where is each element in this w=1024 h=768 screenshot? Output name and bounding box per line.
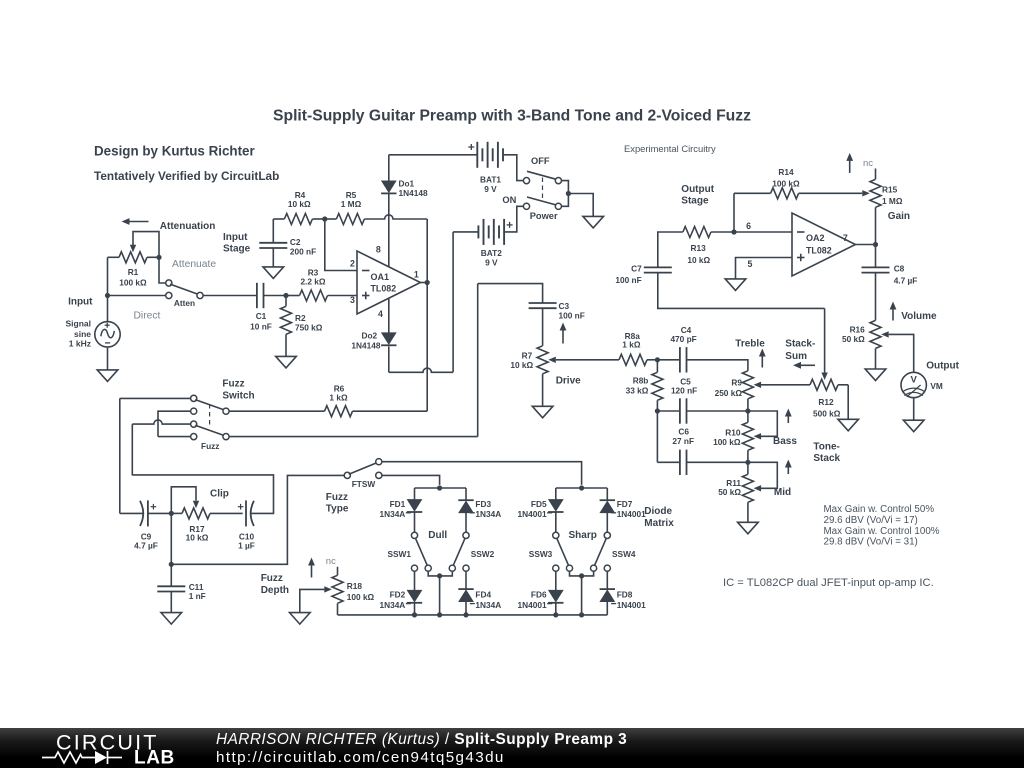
switch SW-Atten xyxy=(166,280,203,299)
svg-text:Gain: Gain xyxy=(888,211,910,222)
note max gain xyxy=(824,504,940,548)
wire diode matrix rail xyxy=(338,612,608,617)
svg-text:Volume: Volume xyxy=(901,311,937,322)
wire sharp center down xyxy=(581,576,583,615)
svg-text:Depth: Depth xyxy=(261,585,289,596)
note IC type xyxy=(723,577,934,589)
svg-text:SSW2: SSW2 xyxy=(471,549,495,559)
wire FD4 to rail xyxy=(465,602,467,615)
switch SSW4 xyxy=(591,532,611,571)
diode FD4 xyxy=(458,589,473,601)
svg-text:9 V: 9 V xyxy=(484,184,497,194)
switch FTSW xyxy=(344,459,382,479)
ground OA2 pin5 xyxy=(725,279,746,291)
wire OA2 pin5 xyxy=(736,258,793,279)
wire V1 top xyxy=(107,296,109,322)
label FD2 xyxy=(379,590,410,610)
node R9 bottom xyxy=(745,408,750,413)
svg-text:Treble: Treble xyxy=(735,339,765,350)
ground power switch xyxy=(583,216,604,228)
wire sharp top bar xyxy=(556,485,608,490)
node C11 top xyxy=(169,562,174,567)
svg-text:4: 4 xyxy=(378,309,383,319)
svg-text:3: 3 xyxy=(350,295,355,305)
svg-text:Tone-: Tone- xyxy=(813,442,839,453)
capacitor C2 xyxy=(259,243,287,248)
wire C6 to R11 top xyxy=(687,461,748,463)
svg-text:OFF: OFF xyxy=(531,156,550,166)
ground below R12 xyxy=(838,419,859,431)
node C1-R2-R3 xyxy=(283,293,288,298)
ground below R16 xyxy=(865,369,886,381)
wire SSW3 inner to SSW4 inner xyxy=(570,571,594,578)
wire BAT1 to switch xyxy=(503,155,523,181)
label Output Stage xyxy=(681,184,714,207)
wire OA1 output xyxy=(420,282,427,284)
wiper R7 xyxy=(548,357,556,363)
gang dashed link fuzz switch xyxy=(209,404,211,426)
wire R7 wiper to R8a xyxy=(556,359,619,361)
svg-text:Output: Output xyxy=(681,184,714,195)
label Attenuation xyxy=(160,221,216,232)
svg-text:R7: R7 xyxy=(522,350,533,360)
node power switch xyxy=(566,191,571,196)
svg-text:5: 5 xyxy=(748,259,753,269)
diode FD6 xyxy=(548,590,563,602)
label Output xyxy=(926,360,959,371)
label R5 xyxy=(341,190,362,209)
svg-text:FD2: FD2 xyxy=(390,590,406,600)
op-amp OA2 xyxy=(792,213,855,276)
svg-text:1N4148: 1N4148 xyxy=(351,340,380,350)
svg-text:1N34A: 1N34A xyxy=(379,509,405,519)
wiper R17 loop xyxy=(171,487,199,514)
diode FD5 xyxy=(548,500,563,512)
node input junction xyxy=(105,293,110,298)
potentiometer R16 xyxy=(870,320,881,369)
wire Do2 to negative rail (hop over output wire) xyxy=(389,368,453,372)
diode FD2 xyxy=(407,590,422,602)
svg-text:Stage: Stage xyxy=(681,196,709,207)
capacitor C1 xyxy=(257,283,264,308)
label VM xyxy=(930,381,943,391)
wire switch commons join xyxy=(562,181,569,207)
label BAT2 xyxy=(481,248,502,267)
ground R18 wiper xyxy=(290,613,311,625)
node OA2 output xyxy=(873,242,878,247)
label FD7 xyxy=(611,499,646,519)
annotation arrow fuzz depth xyxy=(308,558,315,578)
label C4 xyxy=(670,325,696,344)
node R4-R5-pin2 xyxy=(322,216,327,221)
annotation arrow drive direction xyxy=(560,323,567,344)
svg-text:SSW4: SSW4 xyxy=(612,549,636,559)
wire SSW2 outer down xyxy=(465,571,467,589)
svg-text:Max Gain w. Control 50%: Max Gain w. Control 50% xyxy=(824,504,935,515)
annotation arrow Bass xyxy=(785,409,792,424)
ground below R11 xyxy=(738,522,759,534)
switch SW-power-ON xyxy=(523,197,561,209)
svg-text:C2: C2 xyxy=(290,237,301,247)
wiper R12 (stack-sum wire) xyxy=(821,308,827,380)
label FD4 xyxy=(470,590,501,610)
svg-text:nc: nc xyxy=(326,556,336,567)
svg-text:R9: R9 xyxy=(731,378,742,388)
wire C2 top xyxy=(272,219,274,243)
svg-text:9 V: 9 V xyxy=(485,257,498,267)
label R1 xyxy=(119,267,147,288)
capacitor C6 xyxy=(680,450,687,475)
wire S1 bottom throw xyxy=(158,411,191,436)
label Input xyxy=(68,297,93,308)
diode Do2 xyxy=(381,333,396,345)
svg-text:750 kΩ: 750 kΩ xyxy=(295,323,323,333)
annotation arrow Attenuation xyxy=(122,218,149,225)
capacitor C3 xyxy=(529,303,557,308)
svg-text:4.7 µF: 4.7 µF xyxy=(894,275,918,285)
svg-text:FD6: FD6 xyxy=(531,590,547,600)
svg-text:OA1: OA1 xyxy=(371,272,390,282)
node R1 right terminal xyxy=(156,255,161,260)
svg-text:Diode: Diode xyxy=(644,506,672,517)
svg-text:10 nF: 10 nF xyxy=(250,321,272,331)
annotation arrow volume xyxy=(890,302,897,321)
wire FD5 to SSW3 xyxy=(555,512,557,532)
svg-text:1N4001: 1N4001 xyxy=(617,600,646,610)
svg-text:Stack-: Stack- xyxy=(785,339,815,350)
switch SSW3 xyxy=(553,532,573,571)
svg-text:2: 2 xyxy=(350,258,355,268)
ground below R2 xyxy=(276,356,297,368)
label C10 xyxy=(238,532,255,551)
wire S1 top throw left xyxy=(120,397,191,399)
battery BAT2 xyxy=(478,219,512,245)
svg-text:Stage: Stage xyxy=(223,243,251,254)
wire negative rail to BAT2 xyxy=(453,231,478,233)
wire SSW4 outer down xyxy=(606,571,608,589)
label R12 xyxy=(813,397,841,419)
svg-text:1N34A: 1N34A xyxy=(475,600,501,610)
label C6 xyxy=(672,427,694,447)
svg-text:4.7 µF: 4.7 µF xyxy=(134,541,158,551)
wire Do2 bottom xyxy=(388,347,390,373)
wire FD3 to SSW2 xyxy=(465,513,467,533)
label ON xyxy=(502,195,516,205)
svg-text:R13: R13 xyxy=(690,243,706,253)
svg-text:FD4: FD4 xyxy=(475,590,491,600)
label R7 xyxy=(510,350,533,370)
pin 7 label OA2 xyxy=(843,233,848,243)
switch SSW1 xyxy=(411,532,431,571)
wire V1 bottom xyxy=(107,347,109,370)
label R2 xyxy=(295,313,323,333)
svg-text:10 kΩ: 10 kΩ xyxy=(288,199,311,209)
node clip xyxy=(169,511,174,516)
wire C10 to S2 top throw xyxy=(132,475,273,514)
label Fuzz Switch xyxy=(222,379,254,402)
svg-text:500 kΩ: 500 kΩ xyxy=(813,409,841,419)
svg-text:100 kΩ: 100 kΩ xyxy=(713,437,741,447)
svg-text:Fuzz: Fuzz xyxy=(326,492,348,503)
wiper R11 loop xyxy=(748,462,777,491)
wire OA1 output down xyxy=(426,283,428,412)
svg-text:Sharp: Sharp xyxy=(569,530,597,541)
wire fuzz input vertical xyxy=(119,398,121,513)
label R15 xyxy=(882,185,903,207)
svg-text:1 MΩ: 1 MΩ xyxy=(882,196,903,206)
wire dull center down xyxy=(439,576,441,615)
resistor R8b xyxy=(652,360,663,411)
title xyxy=(273,107,751,124)
wire SSW1 outer down xyxy=(414,571,416,590)
wire switch to C1 xyxy=(203,295,257,297)
svg-text:FD8: FD8 xyxy=(617,590,633,600)
label Fuzz Type xyxy=(326,492,349,514)
svg-text:Mid: Mid xyxy=(774,487,791,498)
svg-text:C8: C8 xyxy=(894,264,905,274)
label C2 xyxy=(290,237,316,257)
svg-text:Tentatively Verified by Circui: Tentatively Verified by CircuitLab xyxy=(94,169,279,183)
potentiometer R18 xyxy=(332,567,343,615)
CircuitLab logo xyxy=(0,728,200,768)
capacitor C4 xyxy=(680,347,687,372)
svg-text:Experimental Circuitry: Experimental Circuitry xyxy=(624,143,716,154)
wire BAT1 left xyxy=(389,154,478,156)
wire R14 vertical xyxy=(733,193,735,232)
svg-text:VM: VM xyxy=(930,381,943,391)
svg-text:Input: Input xyxy=(223,232,248,243)
label V1 signal sine 1kHz xyxy=(65,319,91,349)
svg-text:Fuzz: Fuzz xyxy=(222,379,244,390)
label SSW1 xyxy=(387,549,411,559)
svg-text:1 kΩ: 1 kΩ xyxy=(329,393,348,403)
label Diode Matrix xyxy=(644,506,674,529)
wire FD7 to SSW4 xyxy=(606,513,608,533)
label Sharp xyxy=(569,530,597,541)
potentiometer R9 xyxy=(742,371,753,411)
svg-text:1N4001: 1N4001 xyxy=(518,509,547,519)
wire FTSW bottom throw to dull group xyxy=(382,475,440,485)
label R8a xyxy=(622,331,641,350)
node OA1 output xyxy=(425,280,430,285)
label C8 xyxy=(894,264,918,286)
label C5 xyxy=(671,377,697,396)
label C3 xyxy=(559,301,585,321)
label Do2 xyxy=(351,330,386,350)
label FD6 xyxy=(518,590,553,610)
diode FD1 xyxy=(407,500,422,512)
ground below R7 xyxy=(532,406,553,418)
svg-text:R1: R1 xyxy=(128,267,139,277)
svg-text:1 kHz: 1 kHz xyxy=(69,338,91,348)
svg-text:Signal: Signal xyxy=(65,319,91,329)
op-amp OA1 xyxy=(357,251,420,314)
wire input to switch xyxy=(108,295,166,297)
wire node to C4 xyxy=(657,359,680,361)
switch SSW-fuzz-1 xyxy=(191,395,230,414)
wire Do1 top xyxy=(388,155,390,181)
wire C6 left xyxy=(657,461,680,463)
label Fuzz Depth xyxy=(261,573,289,596)
capacitor C8 xyxy=(862,245,890,321)
svg-text:SSW1: SSW1 xyxy=(387,549,411,559)
svg-text:Fuzz: Fuzz xyxy=(261,573,283,584)
svg-text:10 kΩ: 10 kΩ xyxy=(510,360,533,370)
wire C2 bottom xyxy=(272,248,274,267)
resistor R6 xyxy=(325,406,428,417)
svg-text:100 nF: 100 nF xyxy=(559,310,585,320)
svg-text:7: 7 xyxy=(843,233,848,243)
wire FD5 top xyxy=(555,488,557,500)
svg-text:Attenuate: Attenuate xyxy=(172,259,216,270)
annotation arrow Mid xyxy=(785,460,792,475)
label R11 xyxy=(718,478,741,497)
label Attenuate xyxy=(172,259,216,270)
node R8b bottom xyxy=(655,408,660,413)
svg-text:Type: Type xyxy=(326,503,349,514)
switch SSW2 xyxy=(449,532,469,571)
potentiometer R12 xyxy=(810,379,848,390)
svg-text:Sum: Sum xyxy=(785,351,807,362)
label C9 xyxy=(134,532,158,551)
svg-text:sine: sine xyxy=(74,329,91,339)
label FD1 xyxy=(379,499,410,519)
wire R5 to output node (hop over pin8 wire) xyxy=(364,215,427,219)
voltage source V1 (signal sine 1 kHz) xyxy=(95,322,120,347)
resistor R1 (potentiometer) xyxy=(108,252,160,263)
label R18 xyxy=(347,581,375,602)
node R8a-R8b-C4 xyxy=(655,357,660,362)
label Atten xyxy=(174,298,195,308)
label R10 xyxy=(713,428,741,447)
svg-text:250 kΩ: 250 kΩ xyxy=(715,388,743,398)
svg-text:Attenuation: Attenuation xyxy=(160,221,216,232)
svg-text:1 MΩ: 1 MΩ xyxy=(341,199,362,209)
wire R16 wiper to VM xyxy=(889,334,914,372)
svg-text:FTSW: FTSW xyxy=(352,479,376,489)
svg-text:FD1: FD1 xyxy=(390,499,406,509)
wire OA2 pin6 xyxy=(734,231,792,233)
wire C3 to R7 xyxy=(542,308,544,346)
url line xyxy=(216,749,505,766)
svg-text:Do2: Do2 xyxy=(362,330,378,340)
label OFF xyxy=(531,156,550,166)
label SSW2 xyxy=(471,549,495,559)
label R16 xyxy=(842,325,865,344)
label nc (R15) xyxy=(863,158,873,169)
svg-text:OA2: OA2 xyxy=(806,233,825,243)
svg-text:V: V xyxy=(911,375,918,386)
svg-text:33 kΩ: 33 kΩ xyxy=(626,386,649,396)
wire stack input vertical xyxy=(477,284,479,437)
pin 6 label OA2 xyxy=(746,221,751,231)
label Dull xyxy=(428,530,447,541)
wire C5 left xyxy=(657,410,680,412)
svg-text:Output: Output xyxy=(926,360,959,371)
resistor R14 xyxy=(734,188,799,199)
svg-text:nc: nc xyxy=(863,158,873,169)
diode FD8 xyxy=(600,589,615,601)
svg-text:10 kΩ: 10 kΩ xyxy=(186,533,209,543)
capacitor C10 (polarized) xyxy=(238,500,254,526)
label Gain xyxy=(888,211,910,222)
label FD5 xyxy=(518,499,553,519)
resistor R4 xyxy=(273,214,325,225)
wire FD8 to rail xyxy=(606,602,608,615)
label R8b xyxy=(626,376,649,396)
svg-text:8: 8 xyxy=(376,244,381,254)
svg-text:R12: R12 xyxy=(818,397,834,407)
label R4 xyxy=(288,190,311,209)
wire C5 to R9 bottom xyxy=(687,410,748,412)
potentiometer R10 xyxy=(742,411,753,462)
label Direct xyxy=(134,311,161,322)
capacitor C7 xyxy=(644,267,672,272)
wiper R9 xyxy=(754,382,762,388)
wire R9 wiper to R12 xyxy=(761,384,810,386)
diode Do1 xyxy=(381,181,396,193)
label SSW4 xyxy=(612,549,636,559)
wire R5 down to output node xyxy=(426,219,428,283)
wire SSW1 inner to SSW2 inner xyxy=(428,571,452,578)
label Mid xyxy=(774,487,791,498)
svg-text:1N4148: 1N4148 xyxy=(399,188,428,198)
wire OA2 output xyxy=(855,244,875,246)
wiper R18 xyxy=(300,586,332,612)
wire OA1 pin4 xyxy=(388,298,390,333)
svg-text:1: 1 xyxy=(414,270,419,280)
svg-text:1 µF: 1 µF xyxy=(238,541,255,551)
node R13-R14-pin6 xyxy=(731,229,736,234)
wire C9 to clip node xyxy=(148,512,171,514)
switch SW-power-OFF xyxy=(523,171,561,183)
wire C3 top run xyxy=(478,284,543,303)
svg-text:SSW3: SSW3 xyxy=(529,549,553,559)
label Power xyxy=(530,211,558,221)
wire clip node down xyxy=(170,513,172,564)
svg-text:Direct: Direct xyxy=(134,311,161,322)
resistor R3 xyxy=(286,290,357,301)
annotation arrow Stack-Sum xyxy=(793,362,815,369)
wire clip to FTSW xyxy=(171,475,344,564)
label Drive xyxy=(556,376,581,387)
label Fuzz (switch) xyxy=(201,441,219,451)
wire VM to ground xyxy=(913,398,915,421)
wire S2 top throw (hop over bottom-throw tie) xyxy=(132,420,190,424)
battery BAT1 xyxy=(468,142,503,168)
wire S2 common right xyxy=(229,436,478,438)
diode FD3 xyxy=(458,500,473,512)
label C1 xyxy=(250,311,272,332)
annotation arrow gain direction xyxy=(846,153,853,173)
svg-text:Fuzz: Fuzz xyxy=(201,441,219,451)
svg-text:FD7: FD7 xyxy=(617,499,633,509)
wire FD3 top xyxy=(465,488,467,500)
pin 2 label OA1 xyxy=(350,258,355,268)
svg-text:50 kΩ: 50 kΩ xyxy=(718,487,741,497)
attribution line xyxy=(216,731,627,749)
wire into C9 xyxy=(120,512,143,514)
pin 4 label OA1 xyxy=(378,309,383,319)
label Clip xyxy=(210,489,229,500)
svg-text:R15: R15 xyxy=(882,185,898,195)
wire SSW3 outer down xyxy=(555,571,557,590)
ground below VM xyxy=(903,420,924,432)
wire ON to BAT2 xyxy=(504,206,523,232)
label C11 xyxy=(189,582,206,601)
wire pin2 net xyxy=(325,219,357,271)
wire C7 top xyxy=(658,232,683,267)
